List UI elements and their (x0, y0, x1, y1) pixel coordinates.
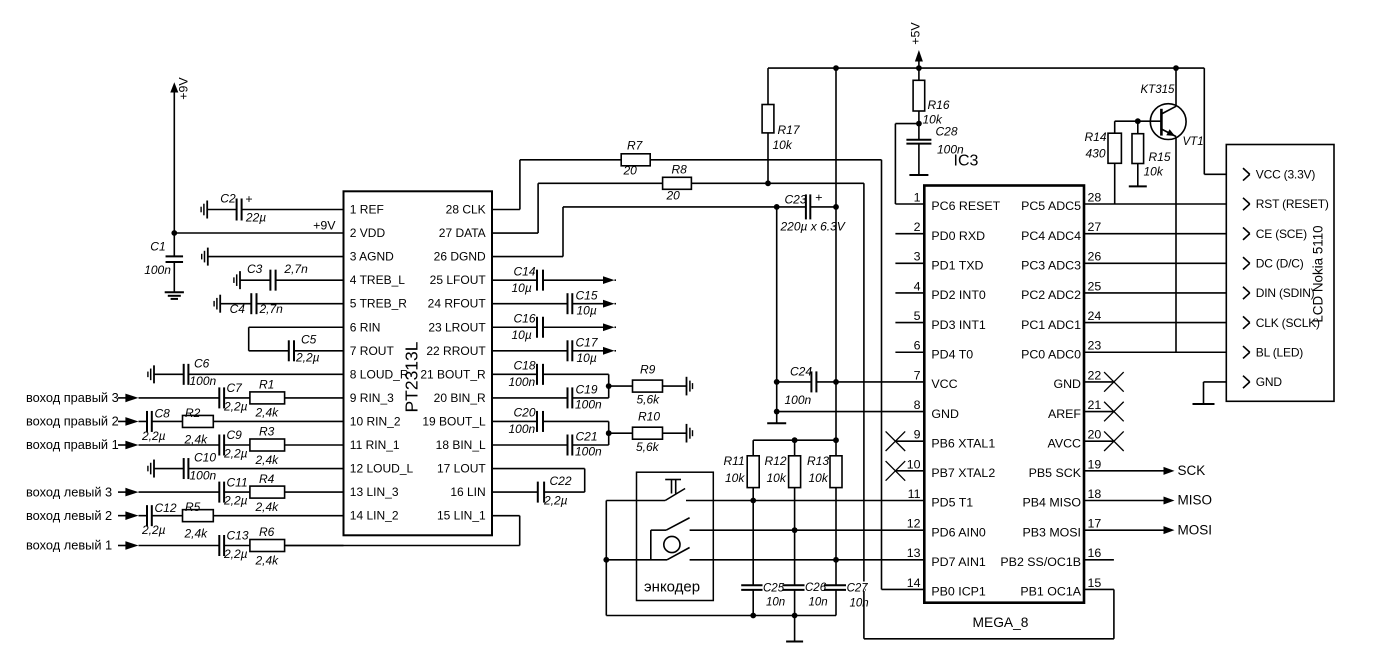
svg-text:C23: C23 (785, 192, 807, 206)
wire VT1 base (1115, 120, 1162, 122)
encoder contact A (651, 518, 714, 560)
input label воход правый 1 (26, 437, 126, 452)
power +5V (909, 22, 923, 69)
svg-text:LCD Nokia 5110: LCD Nokia 5110 (1310, 225, 1325, 322)
svg-text:10k: 10k (809, 471, 829, 485)
svg-text:16: 16 (1088, 546, 1102, 560)
svg-text:PC3 ADC3: PC3 ADC3 (1021, 259, 1081, 273)
svg-text:4 TREB_L: 4 TREB_L (350, 273, 405, 287)
svg-text:18 BIN_L: 18 BIN_L (436, 438, 486, 452)
svg-text:CE (SCE): CE (SCE) (1256, 227, 1307, 241)
node +9V / VDD junction (171, 230, 177, 236)
resistor R13 (807, 440, 842, 560)
resistor R12 (765, 440, 801, 530)
svg-text:AVCC: AVCC (1047, 436, 1081, 450)
node collector rail junction (1173, 65, 1179, 71)
node rail R12 (792, 437, 798, 443)
wire C20 to R10 junction (543, 421, 609, 433)
svg-text:воход правый 2: воход правый 2 (26, 414, 119, 429)
svg-text:25 LFOUT: 25 LFOUT (430, 273, 487, 287)
wire R1 to chip (285, 397, 344, 399)
svg-text:16 LIN: 16 LIN (450, 485, 485, 499)
svg-text:GND: GND (1053, 377, 1081, 391)
svg-text:2 VDD: 2 VDD (350, 226, 386, 240)
input arrow воход левый 2 (125, 511, 138, 520)
svg-text:C12: C12 (155, 501, 177, 515)
IC PT2313L box (344, 191, 493, 535)
svg-text:10n: 10n (766, 597, 785, 609)
wire CLK line pin24 to LCD (1084, 322, 1250, 324)
svg-text:R3: R3 (259, 425, 275, 439)
svg-text:+9V: +9V (177, 77, 191, 100)
wire encoder ground rail (606, 615, 836, 617)
capacitor C10 (148, 451, 217, 483)
svg-text:VCC: VCC (931, 377, 957, 391)
svg-text:C4: C4 (230, 302, 246, 316)
svg-text:2,2µ: 2,2µ (223, 447, 248, 461)
svg-text:22: 22 (1088, 368, 1102, 382)
svg-text:20: 20 (666, 189, 681, 203)
svg-text:5 TREB_R: 5 TREB_R (350, 297, 407, 311)
svg-text:12 LOUD_L: 12 LOUD_L (350, 462, 414, 476)
svg-text:AREF: AREF (1048, 407, 1081, 421)
ground below C24 (767, 422, 786, 424)
LCD pin arrow RST (RESET) (1243, 198, 1250, 210)
svg-text:C7: C7 (227, 381, 244, 395)
wire reset to pin1 of MEGA (895, 124, 924, 204)
node GND pin8 junction (774, 409, 780, 415)
capacitor C27 (824, 585, 866, 615)
wire VCC pin7 of MEGA (836, 381, 924, 383)
pin10 XTAL2 stub (895, 470, 924, 472)
svg-text:100n: 100n (190, 374, 217, 388)
svg-text:26: 26 (1088, 250, 1102, 264)
wire R11 to C25 (752, 501, 754, 586)
wire R4 to chip (285, 491, 344, 493)
svg-text:10µ: 10µ (512, 281, 532, 295)
svg-text:PD2 INT0: PD2 INT0 (931, 288, 986, 302)
svg-text:R5: R5 (185, 500, 201, 514)
svg-text:R15: R15 (1149, 150, 1171, 164)
wire +5V vertical branch (835, 68, 837, 440)
svg-text:+: + (815, 191, 822, 205)
svg-text:11: 11 (908, 487, 921, 501)
svg-text:2,4k: 2,4k (255, 453, 280, 467)
LCD pin arrow DIN (SDIN) (1243, 287, 1250, 299)
svg-text:21 BOUT_R: 21 BOUT_R (420, 367, 486, 381)
svg-text:23 LROUT: 23 LROUT (428, 320, 486, 334)
svg-text:2,4k: 2,4k (184, 527, 209, 541)
svg-text:10µ: 10µ (577, 304, 597, 318)
svg-text:IC3: IC3 (954, 153, 979, 170)
label MISO (1178, 493, 1213, 508)
svg-text:R6: R6 (259, 525, 275, 539)
svg-text:15: 15 (1088, 576, 1102, 590)
pin21 AREF stub (1084, 411, 1114, 413)
capacitor C23 (777, 191, 846, 234)
svg-text:PB2 SS/OC1B: PB2 SS/OC1B (1000, 555, 1081, 569)
input arrow воход левый 3 (125, 488, 138, 497)
node R13 pin13 junction (833, 557, 839, 563)
MEGA right pin numbers (1088, 190, 1102, 589)
capacitor C5 between RIN and ROUT (249, 327, 344, 364)
ground right of R9 (687, 377, 693, 396)
resistor R11 (724, 440, 760, 500)
svg-text:2,4k: 2,4k (255, 500, 280, 514)
input arrow воход правый 1 (125, 441, 138, 450)
ground below C28 (909, 174, 928, 176)
svg-text:20: 20 (623, 164, 638, 178)
svg-text:DC (D/C): DC (D/C) (1256, 257, 1304, 271)
wire encoder common (605, 501, 607, 616)
node +5V rail / C23 branch (833, 65, 839, 71)
X mark pin9 (886, 431, 906, 451)
svg-text:20: 20 (1088, 428, 1102, 442)
capacitor C3 (234, 262, 308, 290)
svg-text:8: 8 (914, 398, 921, 412)
svg-text:PC6 RESET: PC6 RESET (931, 199, 1000, 213)
capacitor C11 (139, 475, 248, 507)
wire C14 output arrow (543, 276, 616, 284)
capacitor C17 (492, 335, 599, 364)
svg-text:3: 3 (914, 250, 921, 264)
capacitor C19 (492, 383, 602, 412)
pin16 stub (1084, 559, 1114, 561)
resistor R2 (152, 406, 214, 447)
svg-text:100n: 100n (509, 422, 536, 436)
svg-text:28: 28 (1088, 190, 1102, 204)
capacitor C18 (492, 359, 543, 389)
svg-text:PB3 MOSI: PB3 MOSI (1022, 525, 1081, 539)
svg-text:C18: C18 (514, 359, 536, 373)
svg-text:10n: 10n (850, 598, 869, 610)
wire C16 output arrow (543, 323, 616, 331)
svg-text:11 RIN_1: 11 RIN_1 (350, 438, 400, 452)
svg-text:R10: R10 (638, 410, 660, 424)
svg-text:C21: C21 (576, 430, 598, 444)
svg-text:C8: C8 (155, 407, 171, 421)
svg-text:C28: C28 (936, 125, 958, 139)
svg-text:25: 25 (1088, 279, 1102, 293)
label MOSI (1178, 522, 1213, 537)
svg-text:BL (LED): BL (LED) (1256, 345, 1304, 359)
resistor R5 (152, 500, 214, 541)
pin9 XTAL1 stub (895, 440, 924, 442)
svg-text:воход левый 1: воход левый 1 (26, 538, 112, 553)
wire R10 to ground (663, 432, 687, 434)
wire AGND pin3 (208, 256, 344, 258)
LCD pin label GND (1256, 375, 1283, 389)
svg-text:PC2 ADC2: PC2 ADC2 (1021, 288, 1081, 302)
wire R5 to chip (213, 515, 343, 517)
wire pullup rail (753, 439, 836, 441)
input label воход правый 3 (26, 390, 126, 405)
wire pin11 T1 (713, 500, 924, 502)
svg-text:14 LIN_2: 14 LIN_2 (350, 509, 399, 523)
resistor R7 (621, 138, 650, 177)
svg-text:C6: C6 (194, 357, 210, 371)
svg-text:C11: C11 (227, 475, 248, 489)
label SCK (1178, 463, 1206, 478)
wire LOUD_L pin12 (188, 468, 343, 470)
svg-text:C1: C1 (150, 240, 165, 254)
node R10 junction (606, 430, 612, 436)
resistor R6 (224, 525, 285, 567)
wire REF pin1 (242, 209, 344, 211)
svg-text:100n: 100n (575, 444, 602, 458)
svg-text:PD1 TXD: PD1 TXD (931, 259, 983, 273)
svg-text:воход левый 3: воход левый 3 (26, 484, 112, 499)
wire C17 output arrow (572, 347, 616, 355)
svg-text:C3: C3 (247, 262, 263, 276)
svg-text:PB0 ICP1: PB0 ICP1 (931, 585, 986, 599)
label C27 value 10n (846, 582, 869, 610)
capacitor C21 (492, 430, 602, 459)
resistor R9 (609, 363, 663, 407)
LCD pin label VCC (3.3V) (1256, 168, 1316, 182)
svg-text:13 LIN_3: 13 LIN_3 (350, 485, 399, 499)
capacitor C13 (139, 529, 249, 561)
node R12 pin12 junction (792, 527, 798, 533)
svg-text:PB4 MISO: PB4 MISO (1022, 496, 1081, 510)
svg-text:1 REF: 1 REF (350, 203, 384, 217)
svg-text:PC0 ADC0: PC0 ADC0 (1021, 347, 1081, 361)
svg-text:10k: 10k (773, 138, 793, 152)
IC PT2313L rotated name (402, 341, 422, 412)
encoder rotor circle (664, 536, 680, 552)
wire ground vertical (776, 207, 778, 423)
svg-text:R8: R8 (672, 162, 688, 176)
node C23 right (833, 204, 839, 210)
MEGA left pin numbers (907, 190, 921, 589)
label MEGA_8 (973, 615, 1029, 630)
svg-text:22µ: 22µ (245, 211, 266, 225)
wire CE line pin27 to LCD (1084, 233, 1250, 235)
capacitor C22 between LOUT and LIN (492, 469, 585, 508)
input label воход левый 3 (26, 484, 126, 499)
wire R13 to C27 (835, 560, 837, 586)
svg-text:8 LOUD_R: 8 LOUD_R (350, 367, 409, 381)
capacitor C14 (492, 264, 543, 294)
svg-text:2,2µ: 2,2µ (295, 351, 320, 365)
LCD pin label RST (RESET) (1256, 197, 1329, 211)
svg-text:R12: R12 (765, 454, 787, 468)
svg-text:26 DGND: 26 DGND (434, 250, 486, 264)
ground below LCD GND (1193, 403, 1215, 405)
svg-text:10µ: 10µ (577, 351, 597, 365)
svg-text:100n: 100n (509, 375, 536, 389)
svg-text:C15: C15 (576, 288, 598, 302)
LCD pin label CE (SCE) (1256, 227, 1307, 241)
svg-text:C14: C14 (514, 264, 536, 278)
node +5V arrow junction (916, 65, 922, 71)
resistor R8 (663, 162, 692, 202)
wire BL line pin23 to LCD (1084, 351, 1250, 353)
svg-text:14: 14 (907, 576, 921, 590)
wire RST line pin28 to LCD (1084, 203, 1250, 205)
svg-text:19 BOUT_L: 19 BOUT_L (422, 414, 486, 428)
capacitor C26 (783, 585, 825, 615)
svg-text:энкодер: энкодер (644, 579, 700, 596)
svg-text:RST (RESET): RST (RESET) (1256, 197, 1329, 211)
capacitor C8 (139, 407, 171, 443)
svg-text:27 DATA: 27 DATA (439, 226, 486, 240)
ground at AGND pin3 (202, 248, 208, 266)
node R17 DATA junction (765, 180, 771, 186)
svg-text:10k: 10k (725, 471, 745, 485)
svg-text:10 RIN_2: 10 RIN_2 (350, 414, 401, 428)
svg-text:7 ROUT: 7 ROUT (350, 344, 395, 358)
svg-text:воход левый 2: воход левый 2 (26, 508, 112, 523)
svg-text:GND: GND (1256, 375, 1283, 389)
node base R15 junction (1135, 118, 1141, 124)
wire VT1 collector to +5V (1175, 68, 1177, 106)
capacitor C6 (148, 357, 217, 389)
svg-text:PB5 SCK: PB5 SCK (1029, 466, 1082, 480)
wire C21 to R10 junction (572, 433, 608, 445)
svg-text:VCC (3.3V): VCC (3.3V) (1256, 168, 1316, 182)
capacitor C16 (492, 311, 543, 341)
svg-text:R4: R4 (259, 472, 275, 486)
capacitor C4 (214, 293, 283, 316)
svg-text:C19: C19 (576, 383, 598, 397)
node R16 C28 junction (916, 121, 922, 127)
svg-text:10k: 10k (1144, 165, 1164, 179)
wire R3 to chip (285, 444, 344, 446)
svg-text:C10: C10 (194, 451, 216, 465)
svg-text:PD0 RXD: PD0 RXD (931, 229, 985, 243)
svg-text:3 AGND: 3 AGND (350, 250, 394, 264)
svg-text:+9V: +9V (313, 218, 336, 232)
svg-text:15 LIN_1: 15 LIN_1 (437, 509, 486, 523)
IC MEGA_8 box (924, 186, 1084, 603)
svg-text:+5V: +5V (909, 22, 923, 45)
svg-text:PC4 ADC4: PC4 ADC4 (1021, 229, 1081, 243)
wire LCD VCC from +5V (1204, 173, 1250, 175)
svg-text:C27: C27 (847, 583, 869, 595)
svg-text:1: 1 (914, 190, 921, 204)
power +9V (170, 77, 190, 233)
svg-text:2,2µ: 2,2µ (141, 523, 166, 537)
svg-text:C25: C25 (763, 583, 785, 595)
resistor R3 (224, 425, 285, 467)
node R9 junction (606, 383, 612, 389)
input arrow воход правый 2 (125, 417, 138, 426)
svg-text:PB7 XTAL2: PB7 XTAL2 (931, 466, 995, 480)
label encoder (644, 579, 700, 596)
wire GND pin8 of MEGA (777, 411, 925, 413)
svg-text:2,7n: 2,7n (283, 262, 308, 276)
svg-text:10µ: 10µ (512, 328, 532, 342)
svg-text:10k: 10k (767, 471, 787, 485)
svg-text:6: 6 (914, 339, 921, 353)
capacitor C28 (906, 124, 964, 175)
MEGA pins 2-6 stubs (895, 234, 924, 353)
svg-text:2,4k: 2,4k (255, 553, 280, 567)
svg-text:MOSI: MOSI (1178, 522, 1213, 537)
node encoder common (603, 557, 609, 563)
svg-text:PB6 XTAL1: PB6 XTAL1 (931, 436, 995, 450)
resistor R16 (913, 68, 950, 126)
svg-text:PD3 INT1: PD3 INT1 (931, 318, 986, 332)
svg-text:PD5 T1: PD5 T1 (931, 496, 973, 510)
svg-text:2,2µ: 2,2µ (543, 494, 568, 508)
svg-text:VT1: VT1 (1183, 136, 1204, 148)
svg-text:C5: C5 (301, 333, 317, 347)
wire DGND net (492, 207, 777, 257)
ground below R15 (1129, 185, 1147, 187)
X mark pin22 (1104, 372, 1124, 392)
encoder box (637, 472, 714, 600)
svg-text:10: 10 (907, 457, 921, 471)
svg-text:C26: C26 (805, 582, 827, 594)
svg-text:PC1 ADC1: PC1 ADC1 (1021, 318, 1081, 332)
wire LOUD_R pin8 (188, 373, 343, 375)
label IC3 (954, 153, 979, 170)
wire R9 to ground (663, 385, 687, 387)
X mark pin20 (1104, 431, 1124, 451)
svg-text:+: + (245, 192, 252, 206)
svg-text:100n: 100n (144, 263, 171, 277)
svg-text:7: 7 (914, 368, 921, 382)
svg-text:R16: R16 (928, 98, 950, 112)
svg-text:9: 9 (914, 428, 921, 442)
svg-text:C16: C16 (514, 311, 536, 325)
svg-text:23: 23 (1088, 339, 1102, 353)
svg-text:C9: C9 (227, 428, 243, 442)
LCD pin arrow GND (1243, 376, 1250, 388)
capacitor C9 (139, 428, 248, 460)
svg-text:2,2µ: 2,2µ (223, 400, 248, 414)
PT2313L left pin labels (350, 203, 414, 523)
wire R12 to C26 (794, 530, 796, 585)
svg-text:R7: R7 (627, 138, 644, 152)
capacitor C15 (492, 288, 598, 317)
resistor R15 (1132, 121, 1171, 186)
svg-text:GND: GND (931, 407, 959, 421)
wire MOSI output (1084, 526, 1175, 534)
capacitor C1 (144, 233, 183, 292)
node C23 left (774, 204, 780, 210)
X mark pin10 (886, 461, 906, 481)
LCD pin label CLK (SCLK) (1256, 316, 1320, 330)
svg-text:20 BIN_R: 20 BIN_R (434, 391, 486, 405)
svg-text:5,6k: 5,6k (636, 440, 660, 454)
svg-text:9 RIN_3: 9 RIN_3 (350, 391, 394, 405)
svg-text:C22: C22 (550, 474, 572, 488)
wire pin12 AIN0 (713, 529, 924, 531)
svg-text:2,2µ: 2,2µ (223, 494, 248, 508)
svg-text:2: 2 (914, 220, 921, 234)
LCD pin label DC (D/C) (1256, 257, 1304, 271)
svg-text:24: 24 (1088, 309, 1102, 323)
LCD pin arrow CLK (SCLK) (1243, 316, 1250, 328)
PT2313L right pin labels (420, 203, 486, 523)
LCD pin label BL (LED) (1256, 345, 1304, 359)
LCD pin arrow BL (LED) (1243, 346, 1250, 358)
resistor R17 (762, 68, 801, 183)
svg-text:430: 430 (1086, 147, 1106, 161)
wire C18 to R9 junction (543, 374, 609, 386)
svg-text:220µ x 6.3V: 220µ x 6.3V (780, 220, 846, 234)
capacitor C7 (139, 381, 248, 413)
svg-text:100n: 100n (785, 393, 812, 407)
svg-text:PB1 OC1A: PB1 OC1A (1020, 585, 1081, 599)
svg-text:KT315: KT315 (1141, 84, 1175, 96)
svg-text:R14: R14 (1085, 130, 1107, 144)
pin22 GND stub (1084, 381, 1114, 383)
capacitor C24 (777, 365, 836, 408)
